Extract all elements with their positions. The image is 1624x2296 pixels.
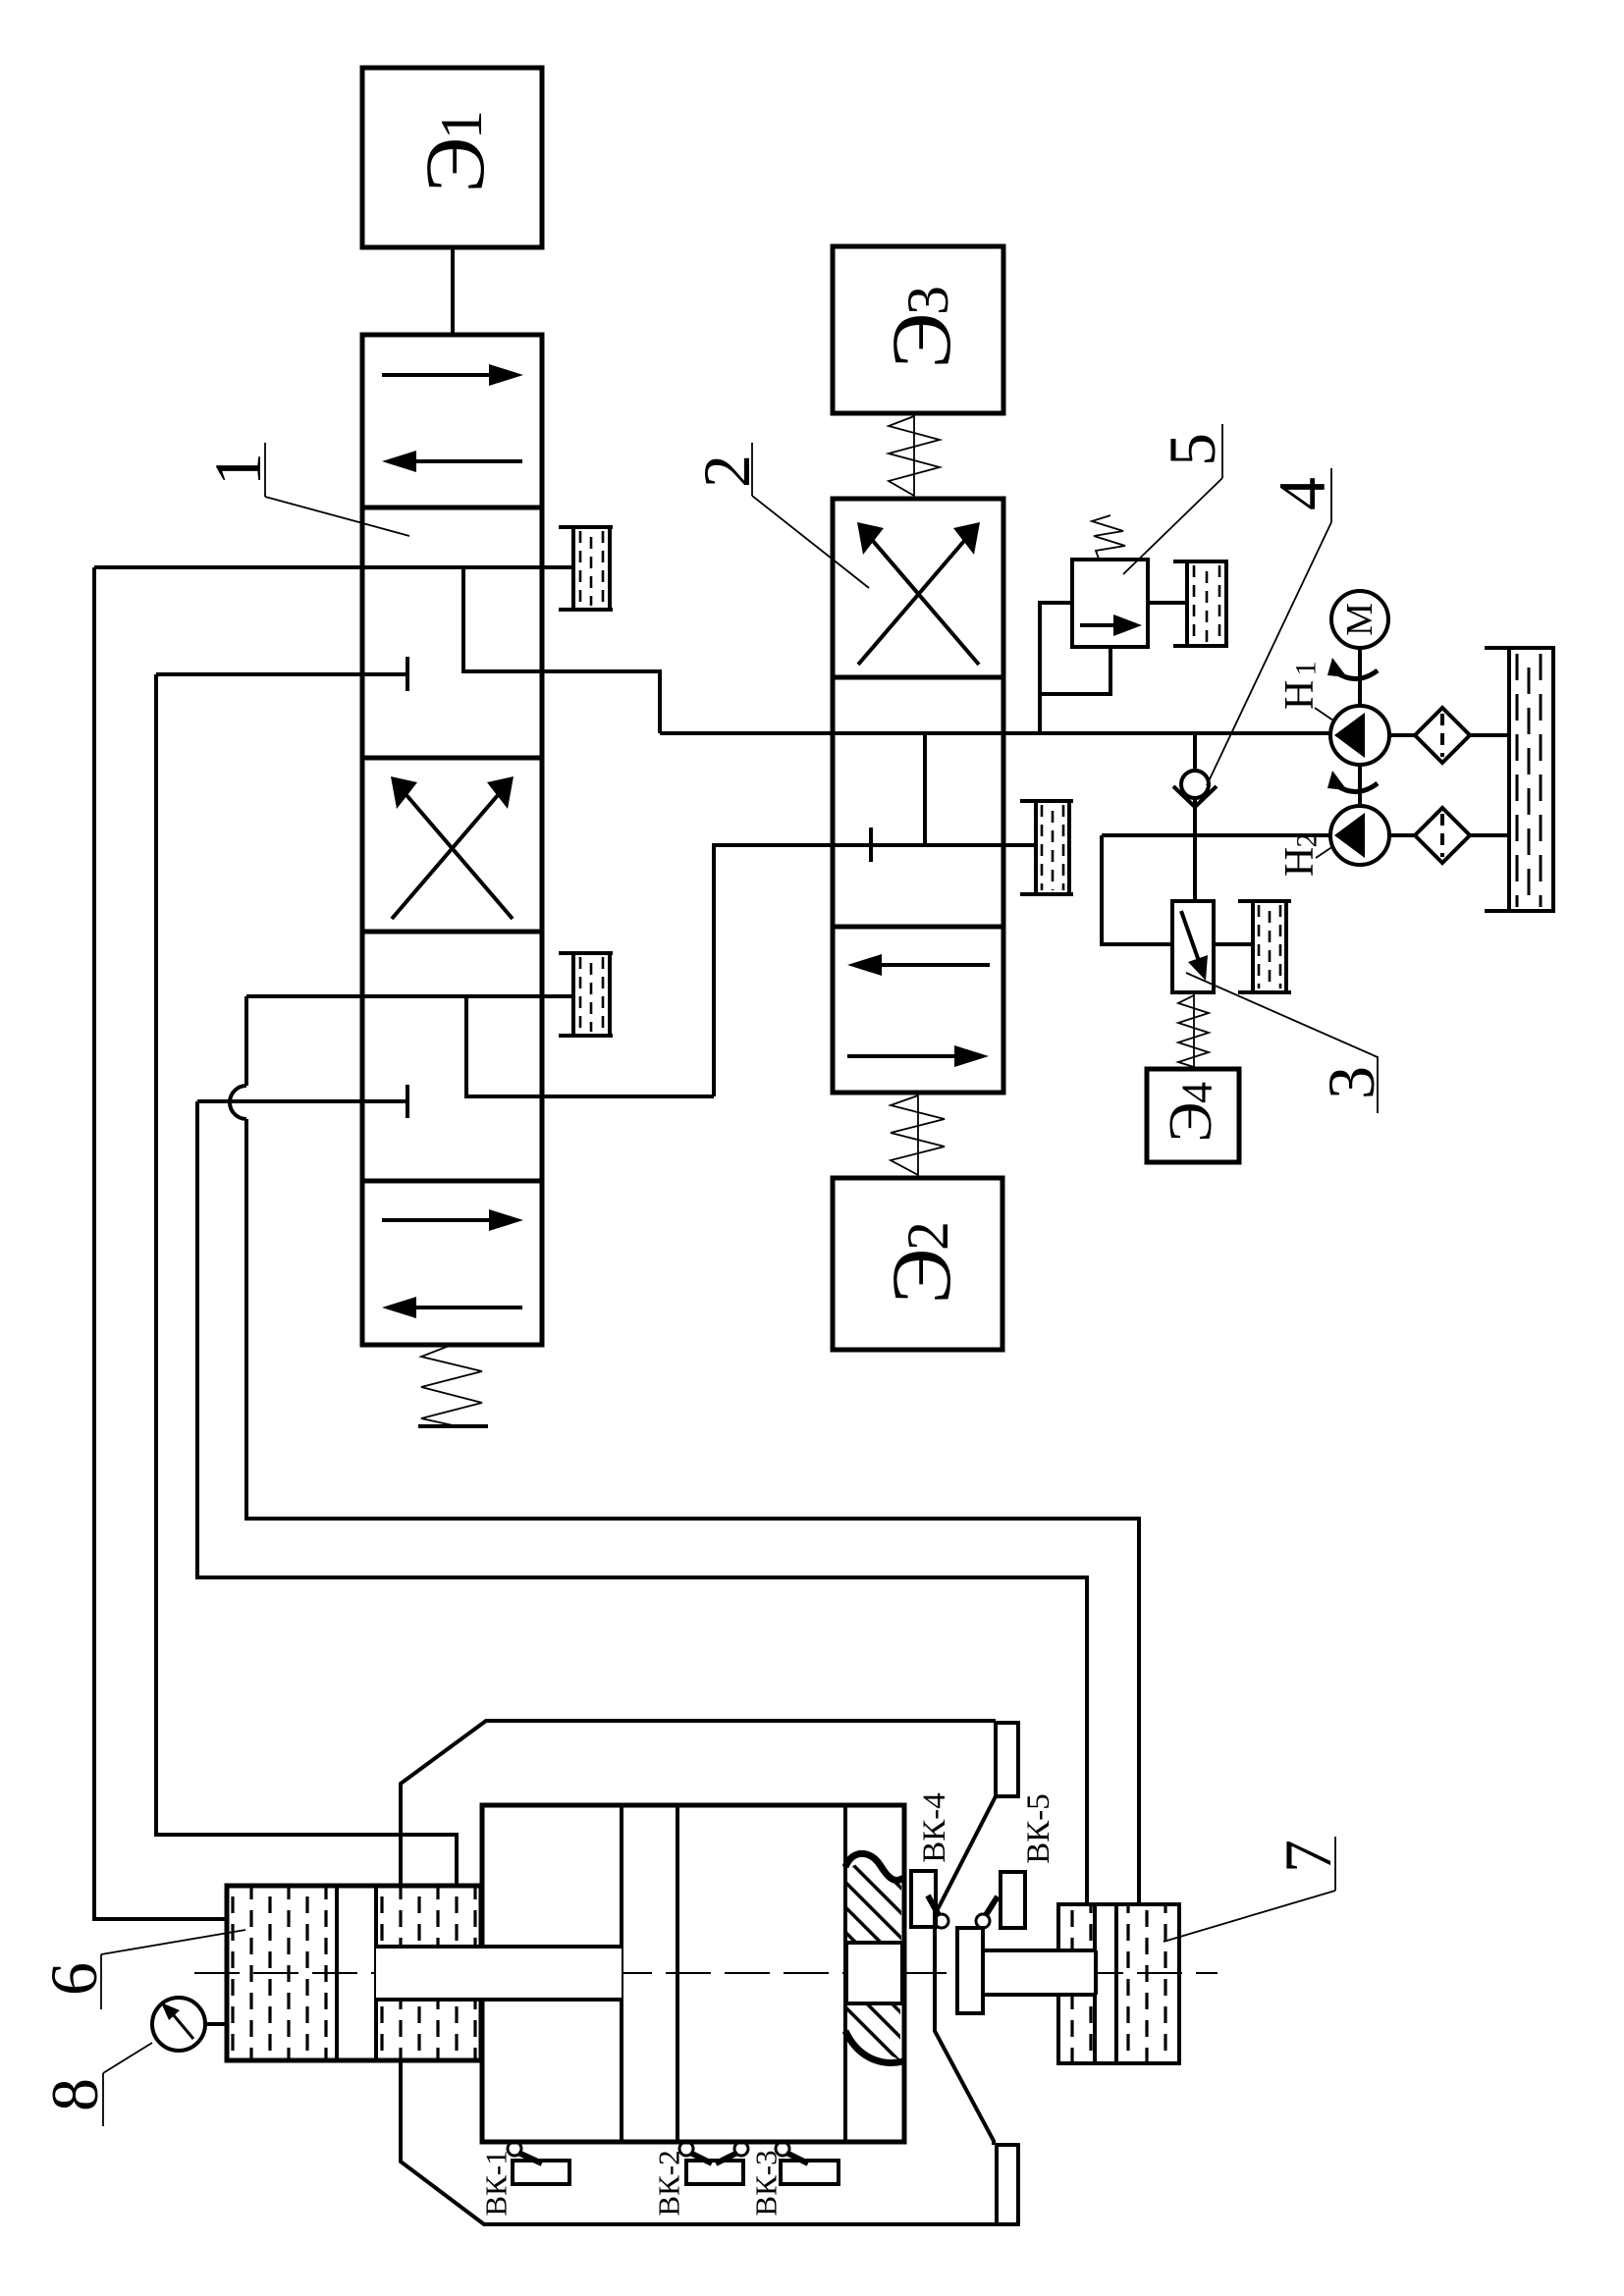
svg-text:4: 4	[1173, 1082, 1221, 1103]
valve 1 crossed arrows	[391, 776, 514, 919]
check valve 4	[1173, 733, 1217, 901]
blocked port T of valve 2	[869, 828, 873, 862]
suction line H1	[1389, 733, 1415, 737]
svg-text:2: 2	[895, 1221, 960, 1251]
relief valve 5 spring	[1092, 515, 1125, 559]
spring between valve 3 and Э4	[1178, 992, 1209, 1069]
shaft between H1 and H2	[1358, 765, 1362, 807]
clamping cylinder 6	[227, 1886, 481, 2060]
bypass line to valve 3	[1102, 835, 1172, 944]
internal branch of valve 1 to main line	[463, 567, 660, 733]
screw lower section	[845, 2005, 903, 2062]
valve 1 return spring	[418, 1345, 488, 1426]
main reservoir tank	[1485, 648, 1555, 911]
svg-text:8: 8	[37, 2078, 112, 2111]
svg-text:7: 7	[1271, 1840, 1345, 1873]
svg-text:Э: Э	[407, 137, 502, 193]
tank symbol at valve 3	[1238, 901, 1291, 992]
coupling between M and H1	[1327, 658, 1378, 679]
pump H2 delivery line	[1102, 833, 1332, 837]
valve 1 body	[362, 335, 542, 1345]
valve 1 position-a arrows	[382, 364, 523, 472]
line filter 1 to tank	[1470, 733, 1509, 737]
solenoid box Э4	[1147, 1069, 1239, 1162]
svg-text:4: 4	[1265, 477, 1339, 510]
label H1 with leader	[1277, 662, 1333, 721]
tank symbol at valve 1 upper port	[559, 527, 613, 610]
svg-text:2: 2	[1291, 833, 1324, 848]
wire C from valve1 T2 to block 7 left	[197, 1101, 1087, 1904]
wire B from valve1 T1 to cylinder 6 rod side	[156, 674, 457, 1886]
svg-text:ВК-2: ВК-2	[652, 2150, 686, 2216]
label 3 with leader	[1186, 973, 1388, 1113]
valve 3 outlet line	[1214, 942, 1253, 946]
blocked port T2 of valve 1	[197, 1085, 407, 1118]
motor shaft to H1	[1358, 648, 1362, 707]
wire D from valve1 P2 to block 7 right (with crossover hop)	[230, 996, 1139, 1904]
svg-text:1: 1	[200, 453, 275, 486]
label 4 with leader	[1207, 468, 1339, 785]
wire Э1 to valve 1	[451, 247, 455, 335]
relief valve 5 body	[1072, 560, 1148, 647]
label 1 with leader	[200, 443, 409, 536]
centerline	[194, 1972, 1218, 1974]
svg-text:5: 5	[1155, 433, 1229, 466]
pressure gauge 8	[152, 1998, 227, 2051]
internal branch of valve 2 to main line	[923, 733, 927, 845]
wire A from valve1 P1 to cylinder 6	[94, 567, 227, 1919]
svg-text:ВК-1: ВК-1	[479, 2150, 514, 2216]
svg-text:Н: Н	[1277, 847, 1323, 877]
internal branch of valve 1 lower to valve 2	[466, 996, 714, 1096]
svg-text:Н: Н	[1277, 680, 1323, 710]
screw upper section	[845, 1853, 903, 1941]
svg-text:1: 1	[1290, 662, 1323, 676]
filter 2	[1415, 808, 1470, 863]
pump H1	[1330, 706, 1389, 765]
svg-text:6: 6	[36, 1962, 111, 1996]
solenoid box Э3	[833, 246, 1003, 413]
cylinder body	[482, 1805, 904, 2142]
svg-text:3: 3	[895, 286, 960, 315]
label 8 with leader	[37, 2043, 152, 2126]
blocked port T1 of valve 1	[156, 657, 407, 691]
pump H2	[1330, 806, 1389, 865]
svg-text:ВК-4: ВК-4	[917, 1792, 952, 1863]
limit switch BK-4	[911, 1792, 952, 1928]
valve 1 position-b arrows	[382, 1209, 523, 1318]
trip plate on rod	[957, 1928, 983, 2013]
solenoid box Э2	[833, 1178, 1002, 1350]
limit switch BK-3	[749, 2142, 839, 2216]
label 5 with leader	[1123, 424, 1229, 574]
piston rod right	[983, 1950, 1096, 1995]
svg-text:Э: Э	[874, 1249, 968, 1305]
relief valve 5 outlet line	[1148, 601, 1187, 605]
solenoid box Э1	[362, 68, 542, 247]
spring between valve 2 and Э2	[891, 1093, 945, 1178]
wire port P1 of valve 1 (y578)	[94, 565, 573, 569]
limit switch BK-5	[976, 1793, 1056, 1928]
machine frame outline	[401, 1721, 1018, 2224]
electric motor M	[1331, 591, 1388, 648]
svg-text:Э: Э	[1158, 1102, 1224, 1143]
label 2 with leader	[689, 443, 869, 588]
tank symbol at valve 2 right port	[1020, 801, 1073, 894]
valve 2 position-b arrows	[847, 954, 990, 1067]
svg-text:Э: Э	[874, 313, 968, 369]
suction line H2	[1389, 833, 1415, 837]
label 7 with leader	[1164, 1837, 1345, 1942]
svg-text:1: 1	[429, 110, 494, 139]
limit switch BK-1	[479, 2142, 570, 2216]
valve 2 body	[833, 499, 1003, 1093]
valve 2 crossed arrows	[857, 522, 980, 665]
svg-text:М: М	[1339, 603, 1380, 636]
svg-text:ВК-5: ВК-5	[1021, 1793, 1056, 1864]
tank symbol at valve 1 lower port	[559, 953, 613, 1036]
wire E from valve1 lower branch to valve2 blocked port	[714, 845, 1036, 1096]
main pressure line from pump H1	[660, 731, 1332, 735]
relief valve 5 pilot line	[1040, 603, 1072, 733]
throttle valve 3 body	[1172, 901, 1214, 992]
spring between Э3 and valve 2	[889, 413, 940, 499]
screw nut	[846, 1943, 902, 2003]
damper block 7	[1058, 1904, 1179, 2063]
valve 3 arrow	[1181, 911, 1208, 981]
tank symbol at relief valve 5	[1173, 561, 1228, 646]
relief valve 5 drain line	[1040, 647, 1110, 694]
relief valve 5 arrow	[1080, 614, 1142, 636]
limit switch BK-2	[652, 2142, 749, 2216]
wire port P2 of valve 1 (y1015)	[246, 994, 573, 998]
filter 1	[1415, 708, 1470, 763]
svg-text:ВК-3: ВК-3	[749, 2150, 784, 2216]
coupling between H1 and H2	[1327, 771, 1378, 792]
label H2 with leader	[1277, 833, 1333, 878]
label 6 with leader	[36, 1930, 245, 2009]
piston rod left	[376, 1947, 622, 2000]
line filter 2 to tank	[1470, 833, 1509, 837]
